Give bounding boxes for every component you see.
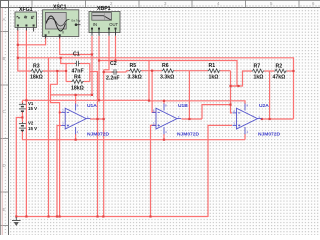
V1 top lead [21,100,23,103]
wire R4 right lead [84,81,90,83]
resistor R6 [162,69,175,73]
page boundary line [1,8,3,236]
junction (270,119) [269,118,271,120]
R1 node vertical to U2A inv [231,71,233,113]
junction (92,54) [91,53,93,55]
junction (60,216) [59,215,61,217]
junction (76,95) [75,94,77,96]
svg-text:3.3kΩ: 3.3kΩ [128,74,142,80]
U1A pin4 drop [75,134,77,140]
U2A out row [262,118,294,120]
box right stub to output vertical [90,72,98,218]
node down to U1B out row [188,71,190,119]
wire XFG1 + output down [17,30,19,72]
wire XFG1 com down to ground bus [25,30,27,100]
resistor R2 [274,69,287,73]
ground bus [16,216,208,218]
wire XBP1 OUT+ to output node [104,36,109,70]
corner box [1,1,9,8]
wire node to U1A inv input jog [51,71,60,217]
U1A + input to bus [57,126,61,218]
svg-text:R4: R4 [74,74,81,80]
svg-text:U1A: U1A [87,103,97,109]
junction (99,100) [98,99,100,101]
rail2 drop to railB [148,61,150,101]
wire C1 right lead [80,63,90,65]
svg-text:XBP1: XBP1 [97,6,111,12]
svg-text:15 V: 15 V [28,126,37,131]
tap down to U1B inv input [152,71,156,113]
svg-text:IN: IN [93,22,97,27]
XBP1 terminal wires [91,36,93,95]
svg-text:NJM072D: NJM072D [258,131,280,137]
junction (61,58) [60,57,62,59]
op-amp U1B [152,104,181,135]
svg-text:2.2nF: 2.2nF [106,76,120,82]
junction (57,71) [56,70,58,72]
svg-text:18kΩ: 18kΩ [71,86,84,92]
wire C2 left lead [104,71,114,73]
bode plotter XBP1 [89,12,120,36]
C1 row leads [66,63,75,65]
svg-text:XFG1: XFG1 [19,7,33,13]
junction (149,101) [148,100,150,102]
svg-text:A: A [3,17,6,22]
svg-text:C2: C2 [110,61,117,67]
wire rail1 feedback [18,58,294,119]
svg-text:R2: R2 [276,64,283,70]
C2 feed vertical [103,70,105,217]
tiny pin numbers [62,104,260,135]
rail2 from XBP1 [99,61,237,87]
junction (26,216) [25,215,27,217]
wire C2-R5 jog [125,71,127,72]
R7 left riser [231,71,252,86]
U1A output row [90,118,104,120]
C2 to R5 [117,71,127,73]
svg-text:U2A: U2A [259,103,269,109]
svg-text:1kΩ: 1kΩ [209,74,219,80]
capacitor C2 [112,71,114,73]
junction (18,58) [17,57,19,59]
rail B (V1+) [22,100,245,104]
junction (26,100) [25,99,27,101]
svg-text:R1: R1 [209,63,216,69]
resistor R3 [31,69,44,73]
C1/R4 box left [65,64,67,82]
junction (22,118) [21,116,23,118]
svg-text:18kΩ: 18kΩ [30,74,43,80]
junction (92,95) [91,94,93,96]
junction (99,60) [98,59,100,61]
svg-text:U1B: U1B [178,103,188,109]
junction (116,60) [114,59,116,61]
U1B pin8 riser [163,101,165,104]
battery V1 [21,103,23,105]
svg-text:C: C [3,109,6,114]
junction (60,113) [59,112,61,114]
svg-text:1kΩ: 1kΩ [254,75,264,81]
function generator XFG1 [15,12,37,32]
junction (164,140) [163,139,165,141]
junction (98,119) [96,118,98,120]
R5 right to R6 left with tap [141,70,162,72]
R2 right lead [287,70,294,72]
svg-text:R5: R5 [130,63,137,69]
svg-text:E: E [3,207,6,212]
U1B out jog up to U2A inv [202,105,231,119]
svg-text:3.3kΩ: 3.3kΩ [160,74,174,80]
svg-text:B: B [3,56,6,61]
junction (66,71) [65,70,67,72]
R7 right / R2 node [264,70,274,72]
svg-text:R7: R7 [254,64,261,70]
junction (76,140) [75,139,77,141]
junction (262,119) [261,118,263,120]
svg-text:R3: R3 [33,64,40,70]
svg-text:C1: C1 [73,52,80,58]
resistor R5 [129,69,142,73]
svg-text:V2: V2 [28,120,34,125]
svg-text:15 V: 15 V [28,106,37,111]
node down to output row [269,71,271,119]
junction (230,86) [229,85,231,87]
junction (104,72) [103,71,105,73]
junction (57,216) [56,215,58,217]
svg-text:NJM072D: NJM072D [87,131,109,137]
junction (98,216) [96,215,98,217]
power rail A (+) [50,94,92,96]
junction (16,216) [15,215,17,217]
C1/R4 box right [89,64,91,82]
U1A pin8 riser [75,95,77,104]
svg-text:R6: R6 [162,63,169,69]
mid to ground bus [16,118,22,218]
oscilloscope XSC1 [43,10,81,39]
op-amp U1A [61,104,90,135]
wire XBP1 OUT- down [115,36,117,61]
U1B pin4 drop [163,134,165,140]
capacitor C1 [75,63,76,65]
wire to scope A [18,37,46,45]
U2A pin4 drop [244,134,246,140]
junction (18,45) [17,44,19,46]
junction (294,71) [292,70,294,72]
junction (103,216) [102,215,104,217]
junction (152,71) [151,70,153,72]
resistor R4 [71,80,84,84]
ground symbol [12,217,21,226]
V2 bottom to V- rail [22,131,245,140]
wire R3 input [18,70,31,72]
junction (238,86) [237,85,239,87]
svg-text:D: D [3,163,6,168]
R1 right lead [220,70,230,72]
wire XBP1 IN- down [98,36,100,100]
wire U1A inv input stub tap [60,111,62,113]
top ruler [0,0,320,8]
V1/V2 mid link [21,112,23,123]
junction (104,119) [103,118,105,120]
wire scope B down to rail1 [60,37,92,55]
junction (230,105) [229,104,231,106]
battery V2 [21,122,23,124]
junction (150,216) [149,215,151,217]
wire rail1 to C1 box corner [61,58,66,64]
resistor R1 [208,69,221,73]
wire XFG1 com rail crossing to bus [25,100,27,217]
svg-text:47kΩ: 47kΩ [273,75,286,81]
R4 row leads [66,81,71,83]
junction (48,216) [47,215,49,217]
op-amp U2A [233,104,262,135]
U1B out row [182,118,203,120]
svg-text:Ext Trig: Ext Trig [72,18,81,22]
left ruler [0,0,9,235]
U2A + input to bus corner [208,125,232,217]
svg-text:NJM072D: NJM072D [177,131,199,137]
wire R3 to node [43,70,66,72]
junction (164,101) [163,100,165,102]
svg-text:XSC1: XSC1 [53,5,67,11]
R6 right lead to node [174,70,208,72]
resistor R7 [252,69,265,73]
svg-text:OUT: OUT [109,22,118,27]
U1B + input to bus [151,125,157,217]
wire rail1 to bus drop [48,58,50,217]
junction (189,119) [188,118,190,120]
